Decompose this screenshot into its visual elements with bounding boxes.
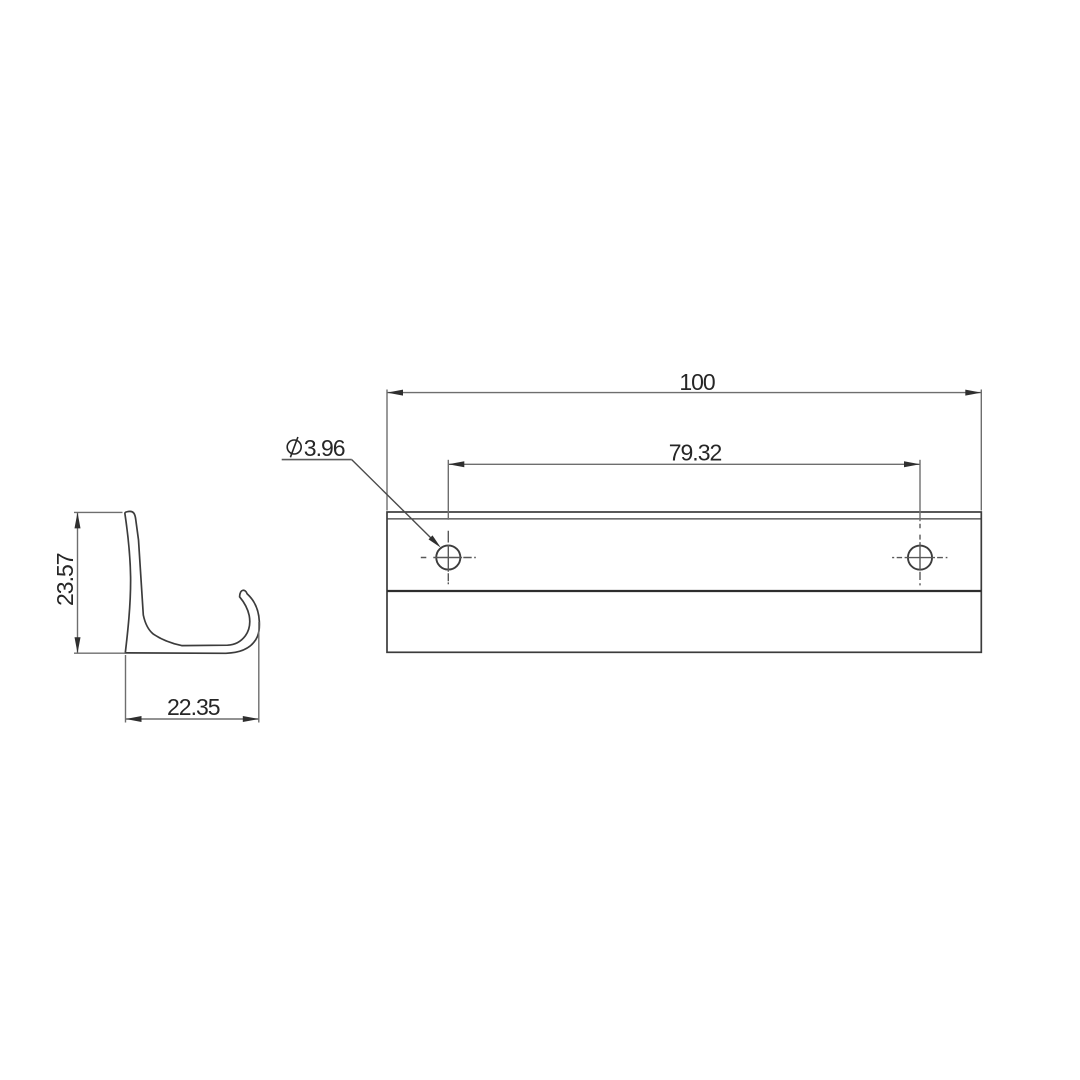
svg-text:23.57: 23.57 [52, 553, 78, 606]
svg-text:100: 100 [679, 369, 715, 395]
svg-text:22.35: 22.35 [167, 694, 220, 720]
svg-text:3.96: 3.96 [304, 435, 345, 461]
svg-text:79.32: 79.32 [669, 440, 722, 466]
